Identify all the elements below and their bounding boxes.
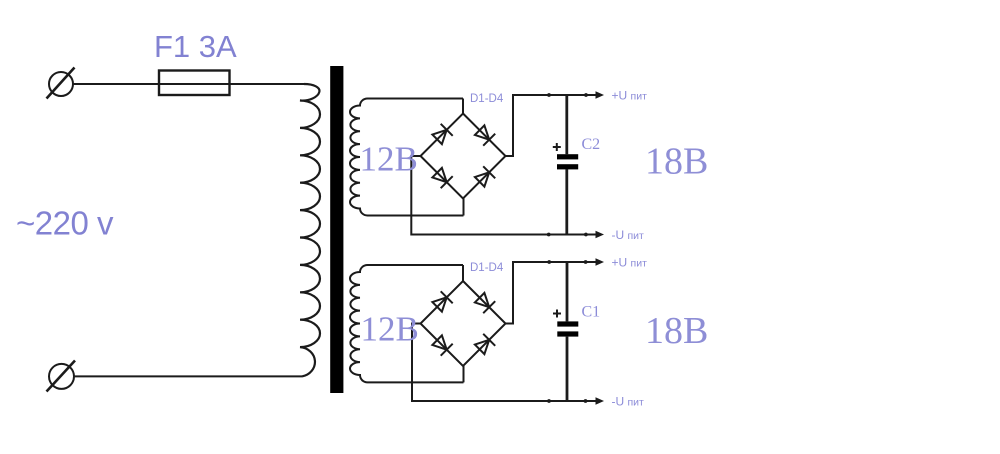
wire: bridge 2 - output (left vertex to -U) [412, 324, 597, 402]
svg-text:12В: 12В [361, 309, 419, 348]
svg-text:~220 v: ~220 v [16, 205, 114, 242]
svg-text:+U пит: +U пит [612, 256, 648, 270]
svg-text:D1-D4: D1-D4 [470, 93, 504, 105]
arrowhead -U pit 1 [596, 231, 605, 239]
junction dots output 2 top [547, 260, 551, 264]
bridge 1 diode TL [432, 124, 452, 144]
svg-text:C1: C1 [582, 304, 601, 321]
bridge 1 diode BL [432, 168, 452, 188]
wire: bridge 2 + output (right vertex to +U) [506, 262, 598, 324]
capacitor C1 plates [557, 321, 578, 326]
svg-text:D1-D4: D1-D4 [470, 262, 504, 274]
bridge 2 diode BL [432, 335, 452, 355]
junction dots output 1 bottom [547, 233, 551, 237]
bridge 2 diode BR [475, 334, 495, 354]
wire: bridge 1 bottom vertex to W1 bottom [463, 199, 465, 216]
transformer T1 secondary winding W2 (lower) [350, 265, 463, 382]
capacitor C2 plates [557, 154, 578, 159]
svg-text:+U пит: +U пит [612, 89, 648, 103]
bridge 2 diode TL [432, 291, 452, 311]
arrowhead +U pit 1 [596, 91, 605, 99]
svg-text:-U пит: -U пит [612, 395, 645, 409]
transformer T1 core [330, 66, 343, 393]
bridge 1 diode TR [475, 125, 495, 145]
terminal X2 (bottom input) [47, 361, 76, 392]
bridge 1 diode BR [475, 166, 495, 186]
wire: bridge 2 bottom vertex to W2 bottom [463, 366, 465, 382]
wire: W1 top to bridge 1 top vertex [462, 99, 464, 114]
svg-text:18В: 18В [645, 310, 708, 352]
bridge 2 diamond (D1-D4) [421, 281, 506, 366]
bridge 2 diode TR [475, 293, 495, 313]
wire: W2 top to bridge 2 top vertex [462, 265, 464, 281]
junction dots output 2 bottom [547, 399, 551, 403]
transformer T1 secondary winding W1 (upper) [350, 99, 464, 216]
transformer T1 primary winding [300, 84, 320, 376]
fuse F1 [159, 71, 230, 96]
capacitor C1 leads [566, 262, 569, 401]
terminal X1 (top input) [47, 68, 75, 99]
wire: bridge 1 + output (right vertex to +U) [506, 95, 598, 156]
junction dots output 1 top [547, 93, 551, 97]
wire: X1 to primary winding (through fuse) [73, 83, 304, 85]
arrowhead +U pit 2 [596, 258, 605, 266]
wire: X2 to primary winding bottom [74, 375, 302, 377]
capacitor C2 polarity + [553, 143, 561, 151]
svg-text:12В: 12В [360, 140, 418, 179]
arrowhead -U pit 2 [596, 397, 605, 405]
svg-text:-U пит: -U пит [612, 228, 645, 242]
svg-text:18В: 18В [645, 141, 708, 183]
wire: bridge 1 - output (left vertex to -U) [411, 156, 597, 235]
bridge 1 diamond (D1-D4) [421, 114, 506, 199]
capacitor C1 polarity + [553, 310, 561, 318]
capacitor C2 leads [565, 95, 568, 235]
svg-text:C2: C2 [582, 136, 601, 153]
svg-text:F1 3A: F1 3A [154, 29, 237, 64]
